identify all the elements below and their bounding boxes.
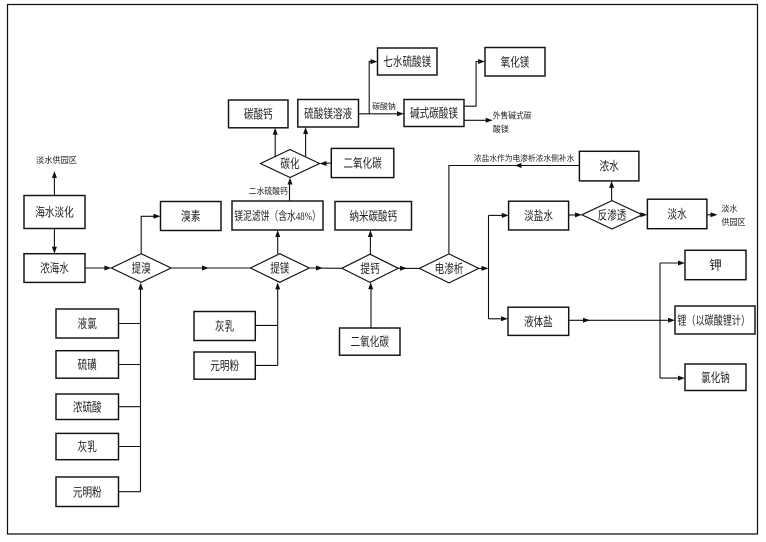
svg-text:纳米碳酸钙: 纳米碳酸钙 [349, 208, 397, 223]
wire 液体盐 right to products bus with mid arrow [569, 318, 660, 323]
svg-text:提钙: 提钙 [360, 261, 379, 276]
svg-text:提溴: 提溴 [132, 261, 152, 276]
svg-text:浓水: 浓水 [600, 160, 620, 174]
box nongshui [579, 151, 639, 181]
svg-text:七水硫酸镁: 七水硫酸镁 [383, 54, 431, 69]
svg-text:碳酸钙: 碳酸钙 [244, 106, 273, 121]
svg-text:液氯: 液氯 [78, 316, 98, 331]
box li [675, 306, 755, 334]
box meinilvbing [232, 201, 323, 230]
svg-text:灰乳: 灰乳 [215, 320, 234, 334]
svg-text:灰乳: 灰乳 [78, 440, 97, 454]
svg-text:硫磺: 硫磺 [78, 357, 97, 372]
box yuanmingfen-right [194, 352, 255, 379]
svg-text:反渗透: 反渗透 [598, 207, 627, 222]
box yanghuamei [485, 48, 545, 77]
wire 提溴 top elbow to 溴素 with arrow [141, 214, 160, 254]
svg-text:淡水: 淡水 [721, 204, 738, 214]
svg-text:碳化: 碳化 [280, 157, 300, 171]
box huiru-right [194, 312, 255, 341]
box yetiyan [508, 307, 569, 335]
svg-text:锂（以碳酸锂计）: 锂（以碳酸锂计） [677, 313, 750, 328]
wire 元明粉 stub [119, 491, 141, 493]
wire 提镁 top to 镁泥滤饼 with arrow [275, 230, 280, 254]
wire feeder bus into 提溴 bottom with arrow [138, 283, 143, 492]
decision diamond fanshentou [582, 201, 642, 229]
svg-text:淡水供园区: 淡水供园区 [36, 155, 77, 165]
svg-text:氧化镁: 氧化镁 [501, 54, 530, 69]
wire 液氯 stub [119, 323, 141, 325]
svg-text:电渗析: 电渗析 [435, 261, 464, 276]
wire 淡盐水 right to 反渗透 with arrow [569, 212, 582, 217]
box xiusu [161, 202, 222, 231]
wire 反渗透 right to 淡水 with arrow [640, 212, 647, 217]
box haishuidanhua [24, 196, 85, 229]
box yuanmingfen-left [56, 477, 119, 507]
wire 提溴 right to 提镁 with mid arrow [171, 266, 250, 271]
wire 浓硫酸 stub [119, 406, 141, 408]
svg-text:二水硫酸钙: 二水硫酸钙 [249, 186, 288, 196]
svg-text:淡水: 淡水 [668, 207, 688, 221]
decision diamond tigai [342, 254, 398, 282]
wire 二氧化碳 left to 碳化 with arrow [320, 161, 332, 166]
box danyanshui [509, 201, 569, 230]
wire junction up to 七水硫酸镁 with arrow [369, 59, 377, 114]
svg-text:溴素: 溴素 [181, 210, 200, 224]
wire 元明粉 right stub [255, 364, 277, 366]
svg-text:浓盐水作为电渗析浓水侧补水: 浓盐水作为电渗析浓水侧补水 [474, 153, 574, 163]
wire 镁泥滤饼 top to 碳化 bottom with arrow [288, 178, 293, 202]
svg-text:碱式碳酸镁: 碱式碳酸镁 [410, 106, 458, 121]
box yelü [56, 309, 119, 338]
decision diamond tanhua [261, 150, 320, 178]
wire 提镁 right to 提钙 with mid arrow [309, 266, 342, 271]
decision diamond dianshenxi [419, 254, 478, 283]
wire 浓海水 right to 提溴 with arrow [85, 266, 111, 271]
svg-text:浓硫酸: 浓硫酸 [73, 399, 102, 414]
svg-text:镁泥滤饼（含水48%）: 镁泥滤饼（含水48%） [234, 208, 321, 223]
wire 灰乳 right stub [255, 324, 277, 326]
wire 淡水 right out with arrow [707, 212, 718, 217]
wire 电渗析 right branch to 淡盐水 and 液体盐 with arrows [479, 213, 509, 321]
wire bus to 钾 with arrow [660, 261, 685, 266]
wire 二氧化碳 up to 提钙 with arrow [368, 282, 373, 328]
wire 碱式碳酸镁 right to 外售 text with arrow [464, 118, 493, 123]
svg-text:液体盐: 液体盐 [524, 314, 553, 329]
svg-text:元明粉: 元明粉 [210, 358, 239, 373]
wire 碳化 up-right to 硫酸镁溶液 with arrow [303, 127, 308, 156]
wire 海水淡化 down to 浓海水 with arrow [52, 229, 57, 254]
box huiru-left [56, 433, 119, 459]
svg-text:海水淡化: 海水淡化 [35, 205, 74, 220]
wire 碱式碳酸镁 elbow up to 氧化镁 with arrow [464, 59, 485, 106]
wire bus to 氯化钠 with arrow [660, 376, 685, 381]
svg-text:浓海水: 浓海水 [40, 261, 69, 276]
box jia [685, 250, 746, 279]
wire 反渗透 top to 浓水 with arrow [609, 181, 614, 201]
decision diamond tixiu [111, 254, 171, 283]
wire feeder bus into 提镁 bottom with arrow [275, 282, 280, 365]
svg-text:外售碱式碳: 外售碱式碳 [493, 110, 532, 120]
wire 海水淡化 up to 淡水供园区 with arrow [52, 171, 57, 196]
wire 提钙 top to 纳米碳酸钙 with arrow [368, 230, 373, 254]
svg-text:淡盐水: 淡盐水 [524, 209, 553, 223]
wire 硫酸镁溶液 right to 碱式碳酸镁 with arrow [359, 111, 405, 116]
svg-text:钾: 钾 [709, 259, 722, 273]
svg-text:二氧化碳: 二氧化碳 [343, 157, 382, 171]
box nanmitansuangai [335, 202, 412, 231]
decision diamond timei [250, 254, 309, 283]
svg-text:提镁: 提镁 [270, 261, 290, 276]
svg-text:供园区: 供园区 [721, 217, 746, 227]
wire products bus vertical [659, 263, 661, 378]
box nonghaishui [24, 254, 85, 283]
svg-text:氯化钠: 氯化钠 [701, 370, 730, 385]
wire 灰乳 stub [119, 446, 141, 448]
box nongliusuan [56, 394, 119, 420]
box tansuangai [229, 100, 289, 128]
box liuhuang [56, 351, 119, 379]
svg-text:酸镁: 酸镁 [493, 124, 510, 134]
wire 浓水 recycle line to 电渗析 top with mid arrow [449, 163, 580, 254]
svg-text:硫酸镁溶液: 硫酸镁溶液 [304, 106, 352, 121]
box danshui [647, 199, 707, 229]
svg-text:元明粉: 元明粉 [73, 484, 102, 499]
wire 硫磺 stub [119, 364, 141, 366]
box qishuiliusuanmei [378, 48, 438, 75]
box lühuana [685, 364, 746, 391]
wire 碳化 up-left to 碳酸钙 with arrow [273, 128, 278, 157]
svg-text:碳酸钠: 碳酸钠 [372, 101, 396, 111]
box eryanghuatan-bottom [340, 328, 401, 355]
box liusuanmeirongye [298, 100, 359, 128]
svg-text:二氧化碳: 二氧化碳 [351, 335, 390, 349]
wire 提钙 right to 电渗析 with mid arrow [398, 266, 419, 271]
wire bus to 锂 with arrow [660, 318, 675, 323]
box jianshitansuanmei [404, 100, 464, 127]
box eryanghuatan-top [331, 148, 394, 177]
